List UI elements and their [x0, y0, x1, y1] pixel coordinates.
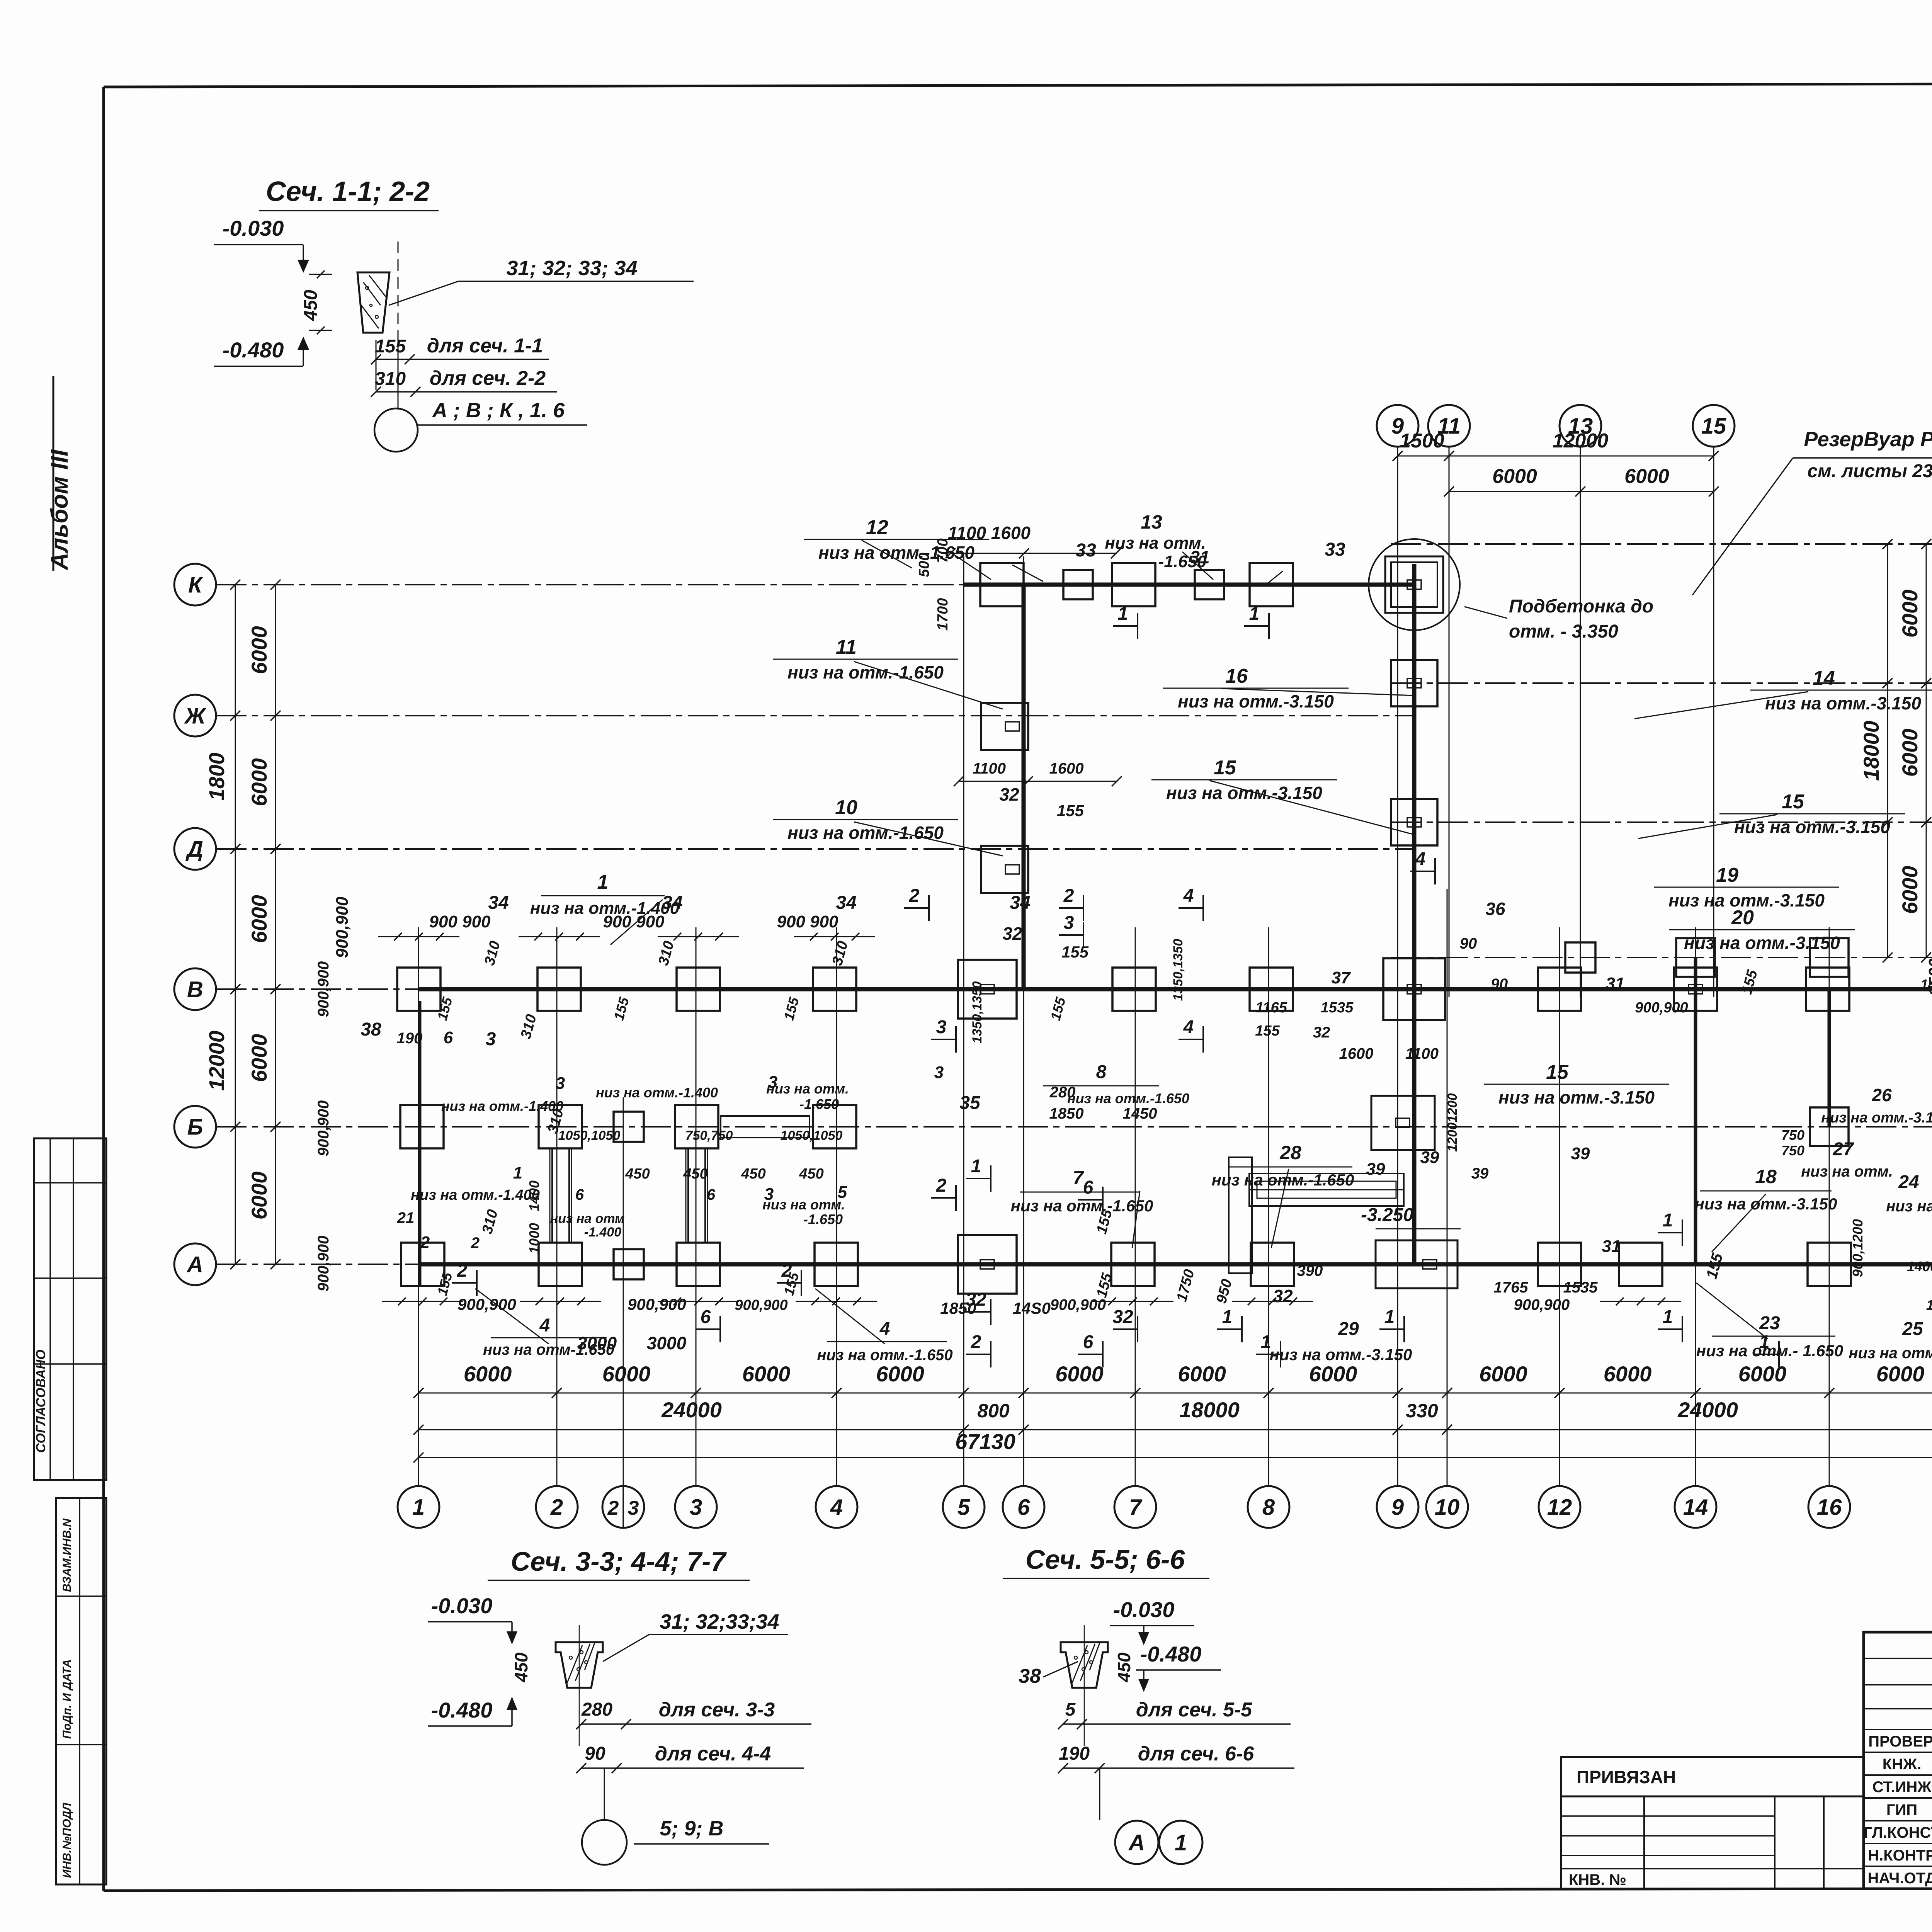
svg-text:6000: 6000: [876, 1362, 924, 1386]
svg-text:1600: 1600: [1339, 1045, 1374, 1062]
svg-text:низ на отм.-1.650: низ на отм.-1.650: [1212, 1171, 1354, 1189]
svg-text:низ на отм.: низ на отм.: [1886, 1198, 1932, 1215]
svg-text:12000: 12000: [204, 1031, 229, 1091]
svg-text:450: 450: [741, 1166, 765, 1182]
svg-text:Альбом III: Альбом III: [46, 449, 73, 571]
svg-text:низ на отм.-1.650: низ на отм.-1.650: [1067, 1090, 1189, 1106]
svg-text:450: 450: [683, 1166, 707, 1182]
svg-text:ВЗАМ.ИНВ.N: ВЗАМ.ИНВ.N: [61, 1518, 73, 1592]
svg-text:1050,1050: 1050,1050: [781, 1128, 843, 1143]
svg-text:280: 280: [581, 1699, 612, 1720]
svg-text:1535: 1535: [1321, 1000, 1354, 1016]
svg-text:6: 6: [707, 1186, 716, 1203]
svg-text:310: 310: [375, 369, 406, 389]
svg-text:низ на отм.-1.650: низ на отм.-1.650: [787, 823, 944, 843]
svg-text:16: 16: [1817, 1495, 1842, 1520]
svg-text:низ на отм: низ на отм: [550, 1211, 625, 1226]
svg-text:5: 5: [1065, 1699, 1076, 1720]
svg-text:СТ.ИНЖ: СТ.ИНЖ: [1872, 1779, 1932, 1796]
svg-text:низ на отм.-3.150: низ на отм.-3.150: [1734, 817, 1890, 837]
svg-text:155: 155: [1255, 1023, 1280, 1039]
svg-text:1: 1: [1175, 1830, 1187, 1855]
svg-text:К: К: [188, 572, 203, 597]
svg-text:ГЛ.КОНСТ: ГЛ.КОНСТ: [1864, 1824, 1932, 1841]
svg-text:3: 3: [936, 1017, 947, 1037]
svg-text:38: 38: [361, 1019, 381, 1040]
svg-text:2: 2: [550, 1495, 563, 1520]
svg-text:155: 155: [375, 336, 406, 357]
svg-text:6000: 6000: [1898, 729, 1922, 777]
svg-text:низ на отм.: низ на отм.: [762, 1197, 845, 1213]
svg-text:34: 34: [1010, 893, 1030, 913]
svg-text:для сеч. 6-6: для сеч. 6-6: [1138, 1743, 1255, 1765]
svg-text:2: 2: [607, 1497, 619, 1519]
svg-text:2: 2: [420, 1233, 430, 1252]
svg-text:3: 3: [628, 1497, 639, 1519]
svg-text:20: 20: [1731, 906, 1754, 929]
svg-text:-0.030: -0.030: [431, 1594, 493, 1618]
svg-text:ИНВ.№ПОДЛ: ИНВ.№ПОДЛ: [61, 1802, 73, 1878]
svg-text:13: 13: [1141, 511, 1162, 533]
svg-text:СОГЛАСОВАНО: СОГЛАСОВАНО: [34, 1350, 48, 1453]
svg-text:РезерВуар РЕ1: РезерВуар РЕ1: [1804, 428, 1932, 451]
svg-text:15: 15: [1782, 791, 1804, 813]
svg-text:для сеч. 4-4: для сеч. 4-4: [655, 1743, 771, 1765]
svg-text:6000: 6000: [1624, 465, 1669, 488]
svg-text:низ на отм.-1.400: низ на отм.-1.400: [411, 1187, 540, 1203]
svg-text:6000: 6000: [1055, 1362, 1104, 1386]
svg-text:1450: 1450: [1123, 1105, 1157, 1122]
svg-text:А ; В ; К , 1. 6: А ; В ; К , 1. 6: [432, 399, 565, 422]
svg-text:14S0: 14S0: [1013, 1299, 1051, 1317]
svg-text:7: 7: [1129, 1495, 1143, 1520]
svg-text:Д: Д: [185, 837, 203, 862]
svg-text:32: 32: [966, 1289, 986, 1310]
svg-text:4: 4: [879, 1319, 890, 1339]
svg-text:1765: 1765: [1494, 1279, 1529, 1296]
svg-text:4: 4: [1183, 1017, 1194, 1037]
svg-text:18000: 18000: [1859, 721, 1883, 781]
svg-text:НАЧ.ОТД: НАЧ.ОТД: [1868, 1870, 1932, 1887]
svg-text:Сеч. 3-3; 4-4; 7-7: Сеч. 3-3; 4-4; 7-7: [511, 1546, 727, 1577]
svg-text:90: 90: [1491, 976, 1508, 993]
svg-text:-1.400: -1.400: [584, 1225, 621, 1240]
svg-text:15: 15: [1546, 1061, 1569, 1083]
svg-text:Б: Б: [187, 1114, 203, 1139]
svg-text:1400: 1400: [526, 1180, 542, 1211]
svg-text:28: 28: [1279, 1142, 1301, 1163]
svg-text:2: 2: [781, 1260, 792, 1281]
svg-text:450: 450: [511, 1652, 531, 1682]
svg-text:2: 2: [471, 1235, 480, 1252]
svg-text:для сеч. 3-3: для сеч. 3-3: [659, 1699, 775, 1721]
svg-text:низ на отм.-1.650: низ на отм.-1.650: [817, 1347, 952, 1364]
svg-text:27: 27: [1832, 1139, 1854, 1160]
svg-text:31: 31: [1606, 974, 1625, 993]
svg-text:4: 4: [1415, 849, 1426, 869]
svg-text:4: 4: [830, 1495, 843, 1520]
svg-text:5; 9; В: 5; 9; В: [660, 1817, 723, 1840]
svg-text:1535: 1535: [1563, 1279, 1598, 1296]
svg-text:А: А: [1128, 1830, 1145, 1855]
svg-text:190: 190: [1059, 1743, 1090, 1764]
svg-text:низ на отм.-3.150: низ на отм.-3.150: [1178, 691, 1334, 711]
svg-text:67130: 67130: [955, 1429, 1015, 1454]
svg-text:450: 450: [625, 1166, 650, 1182]
svg-text:32: 32: [1273, 1286, 1293, 1306]
svg-text:330: 330: [1406, 1400, 1438, 1422]
svg-text:6000: 6000: [1898, 866, 1922, 914]
svg-text:34: 34: [488, 893, 509, 913]
svg-text:39: 39: [1366, 1160, 1385, 1179]
svg-text:36: 36: [1485, 899, 1505, 919]
svg-text:900,900: 900,900: [1635, 1000, 1688, 1016]
svg-text:3000: 3000: [647, 1333, 687, 1353]
svg-text:1: 1: [1118, 604, 1128, 624]
svg-text:Н.КОНТР: Н.КОНТР: [1868, 1847, 1932, 1864]
svg-text:6: 6: [701, 1307, 711, 1327]
svg-text:низ на отм-1.650: низ на отм-1.650: [483, 1341, 614, 1358]
svg-text:900,900: 900,900: [315, 1100, 332, 1156]
svg-text:низ на отм.-1.650: низ на отм.-1.650: [787, 662, 944, 682]
svg-text:900 900: 900 900: [777, 912, 838, 931]
svg-text:31; 32; 33; 34: 31; 32; 33; 34: [506, 257, 637, 280]
svg-text:24000: 24000: [661, 1398, 722, 1422]
svg-text:низ на отм.: низ на отм.: [766, 1081, 849, 1097]
svg-text:6000: 6000: [602, 1362, 651, 1386]
svg-text:КНЖ.: КНЖ.: [1883, 1756, 1922, 1773]
svg-text:Сеч. 5-5; 6-6: Сеч. 5-5; 6-6: [1026, 1544, 1185, 1575]
svg-text:А: А: [186, 1252, 203, 1277]
svg-text:5: 5: [957, 1495, 970, 1520]
svg-text:4: 4: [539, 1315, 550, 1336]
svg-text:7: 7: [1073, 1167, 1084, 1189]
svg-text:35: 35: [959, 1093, 981, 1113]
svg-text:8: 8: [1262, 1495, 1275, 1520]
svg-text:6: 6: [575, 1186, 584, 1203]
svg-text:2: 2: [936, 1175, 947, 1196]
svg-text:низ на отм.-3.150: низ на отм.-3.150: [1270, 1345, 1412, 1364]
svg-text:1: 1: [1759, 1332, 1770, 1352]
svg-text:Сеч. 1-1; 2-2: Сеч. 1-1; 2-2: [266, 176, 430, 207]
svg-text:1: 1: [513, 1163, 522, 1182]
svg-text:155: 155: [1061, 943, 1089, 961]
svg-text:1400,400: 1400,400: [1926, 1297, 1932, 1313]
svg-text:21: 21: [397, 1209, 415, 1226]
svg-text:29: 29: [1338, 1319, 1359, 1339]
svg-text:низ на отм.: низ на отм.: [1801, 1163, 1893, 1180]
svg-text:155: 155: [1057, 801, 1084, 820]
svg-text:1: 1: [1663, 1307, 1673, 1327]
svg-text:низ на отм.-3.150: низ на отм.-3.150: [1821, 1110, 1932, 1126]
svg-text:-1.650: -1.650: [803, 1211, 843, 1227]
svg-text:2: 2: [971, 1332, 981, 1352]
svg-text:6000: 6000: [1876, 1362, 1925, 1386]
svg-text:25: 25: [1902, 1319, 1923, 1339]
svg-text:низ на отм.-1.400: низ на отм.-1.400: [441, 1098, 563, 1114]
svg-text:900,900: 900,900: [457, 1295, 516, 1313]
svg-text:450: 450: [1114, 1652, 1134, 1682]
svg-text:10: 10: [835, 796, 857, 819]
svg-text:-0.480: -0.480: [431, 1698, 493, 1722]
svg-text:450: 450: [301, 290, 321, 321]
svg-text:низ на отм.-1.650: низ на отм.-1.650: [818, 543, 975, 563]
svg-text:низ на отм.-1.400: низ на отм.-1.400: [596, 1085, 718, 1100]
svg-text:2: 2: [909, 886, 920, 906]
svg-text:34: 34: [662, 893, 682, 913]
svg-text:900 900: 900 900: [603, 912, 665, 931]
svg-text:6000: 6000: [742, 1362, 791, 1386]
svg-text:8: 8: [1096, 1062, 1107, 1082]
svg-text:Ж: Ж: [184, 703, 207, 728]
svg-text:ГИП: ГИП: [1886, 1801, 1917, 1818]
svg-text:6000: 6000: [247, 626, 271, 674]
svg-text:6: 6: [1017, 1495, 1030, 1520]
svg-text:12: 12: [866, 516, 888, 539]
svg-text:1: 1: [1663, 1210, 1673, 1231]
svg-text:-3.250: -3.250: [1361, 1205, 1413, 1225]
svg-text:90: 90: [1460, 935, 1477, 952]
svg-text:-0.030: -0.030: [1113, 1597, 1175, 1622]
svg-text:3: 3: [1064, 913, 1074, 933]
svg-text:1: 1: [1222, 1307, 1233, 1327]
svg-text:900,900: 900,900: [315, 961, 332, 1017]
svg-text:39: 39: [1571, 1144, 1590, 1163]
svg-text:2: 2: [457, 1260, 468, 1281]
svg-text:24000: 24000: [1677, 1398, 1738, 1422]
svg-text:низ на отм.-3.150: низ на отм.-3.150: [1695, 1195, 1837, 1213]
svg-text:1400: 1400: [1920, 976, 1932, 992]
svg-text:38: 38: [1019, 1665, 1041, 1687]
svg-text:14: 14: [1683, 1495, 1708, 1520]
svg-text:750: 750: [1781, 1127, 1804, 1143]
svg-text:900 900: 900 900: [429, 912, 491, 931]
svg-text:1000: 1000: [526, 1223, 542, 1254]
svg-text:16: 16: [1225, 665, 1248, 687]
svg-text:190: 190: [397, 1030, 423, 1047]
svg-text:6000: 6000: [1479, 1362, 1527, 1386]
svg-text:1400,400: 1400,400: [1907, 1259, 1932, 1274]
svg-text:6000: 6000: [1309, 1362, 1357, 1386]
svg-text:низ на отм.-3.150: низ на отм.-3.150: [1765, 693, 1921, 713]
svg-text:-1.650: -1.650: [799, 1096, 839, 1112]
svg-text:6000: 6000: [1492, 465, 1537, 488]
svg-text:1165: 1165: [1255, 1000, 1287, 1016]
svg-text:6000: 6000: [247, 1034, 271, 1082]
svg-text:низ на отм.-3.150: низ на отм.-3.150: [1684, 933, 1840, 953]
svg-text:1100 1600: 1100 1600: [948, 523, 1031, 543]
svg-text:32: 32: [1002, 923, 1022, 944]
svg-text:1350,1350: 1350,1350: [970, 981, 985, 1044]
svg-text:1: 1: [971, 1156, 981, 1177]
svg-text:39: 39: [1420, 1148, 1439, 1167]
svg-text:6: 6: [1083, 1332, 1094, 1352]
svg-text:6: 6: [1083, 1177, 1094, 1198]
svg-text:3: 3: [934, 1063, 944, 1082]
svg-text:низ на отм.-3.150: низ на отм.-3.150: [1166, 783, 1322, 803]
svg-text:24: 24: [1898, 1172, 1919, 1192]
svg-text:900,1200: 900,1200: [1850, 1219, 1866, 1277]
svg-text:1600: 1600: [1049, 760, 1084, 777]
svg-text:12: 12: [1547, 1495, 1572, 1520]
svg-text:3: 3: [764, 1185, 774, 1204]
svg-text:-0.030: -0.030: [223, 216, 284, 240]
svg-text:ПРОВЕР.: ПРОВЕР.: [1868, 1733, 1932, 1750]
svg-text:33: 33: [1075, 540, 1096, 561]
svg-text:КНВ. №: КНВ. №: [1569, 1871, 1626, 1888]
svg-text:900,900: 900,900: [735, 1297, 787, 1313]
svg-text:90: 90: [585, 1743, 605, 1764]
svg-text:1850: 1850: [1049, 1105, 1084, 1122]
svg-text:ПРИВЯЗАН: ПРИВЯЗАН: [1577, 1767, 1676, 1787]
svg-text:3: 3: [556, 1074, 565, 1093]
svg-text:4: 4: [1183, 886, 1194, 906]
svg-text:Подбетонка до: Подбетонка до: [1509, 596, 1653, 617]
svg-text:6000: 6000: [464, 1362, 512, 1386]
svg-text:для сеч. 1-1: для сеч. 1-1: [427, 335, 543, 357]
svg-text:6000: 6000: [1604, 1362, 1652, 1386]
svg-text:5: 5: [838, 1183, 847, 1202]
svg-text:6: 6: [444, 1028, 453, 1047]
svg-text:1100: 1100: [973, 760, 1006, 777]
svg-text:низ на отм.-3.150: низ на отм.-3.150: [1498, 1087, 1655, 1107]
svg-text:14: 14: [1813, 667, 1835, 689]
svg-text:32: 32: [1313, 1024, 1330, 1041]
svg-text:15: 15: [1214, 757, 1236, 779]
svg-text:6000: 6000: [1178, 1362, 1226, 1386]
svg-text:3: 3: [690, 1495, 702, 1520]
svg-text:10: 10: [1435, 1495, 1460, 1520]
svg-text:39: 39: [1471, 1165, 1489, 1182]
svg-text:1: 1: [597, 871, 609, 893]
svg-text:1: 1: [1249, 604, 1260, 624]
svg-text:для сеч. 5-5: для сеч. 5-5: [1136, 1699, 1253, 1721]
svg-text:18: 18: [1755, 1166, 1777, 1187]
svg-text:32: 32: [999, 784, 1019, 804]
svg-text:37: 37: [1332, 968, 1351, 987]
svg-text:390: 390: [1297, 1262, 1323, 1279]
svg-text:6000: 6000: [247, 1172, 271, 1220]
svg-text:19: 19: [1716, 864, 1738, 886]
svg-text:ПоДп. И ДАТА: ПоДп. И ДАТА: [61, 1659, 73, 1739]
svg-text:9: 9: [1391, 1495, 1404, 1520]
svg-text:2: 2: [1063, 886, 1074, 906]
svg-text:1: 1: [412, 1495, 425, 1520]
svg-text:800: 800: [977, 1400, 1010, 1422]
svg-text:1: 1: [1261, 1332, 1271, 1352]
svg-text:см. листы 23..33: см. листы 23..33: [1807, 461, 1932, 481]
svg-text:33: 33: [1325, 539, 1345, 560]
svg-text:34: 34: [836, 893, 856, 913]
svg-text:450: 450: [799, 1166, 823, 1182]
svg-text:31; 32;33;34: 31; 32;33;34: [660, 1610, 779, 1633]
svg-text:15: 15: [1701, 413, 1726, 439]
svg-text:для сеч. 2-2: для сеч. 2-2: [430, 367, 546, 389]
svg-text:750,750: 750,750: [685, 1128, 733, 1143]
svg-text:900,900: 900,900: [333, 896, 352, 958]
svg-text:750: 750: [1781, 1143, 1804, 1158]
svg-text:6000: 6000: [1898, 590, 1922, 638]
svg-text:23: 23: [1759, 1313, 1780, 1333]
svg-text:32: 32: [1112, 1307, 1133, 1327]
svg-text:1500: 1500: [1400, 430, 1444, 452]
svg-text:12000: 12000: [1553, 430, 1609, 452]
svg-text:31: 31: [1190, 547, 1209, 567]
svg-text:В: В: [187, 977, 203, 1002]
svg-text:-0.480: -0.480: [223, 338, 284, 362]
svg-text:900,900: 900,900: [315, 1236, 332, 1292]
svg-text:900,900: 900,900: [628, 1295, 686, 1313]
svg-text:низ на отм.-3.150: низ на отм.-3.150: [1849, 1345, 1932, 1362]
svg-text:900,900: 900,900: [1514, 1296, 1570, 1313]
svg-text:3: 3: [768, 1073, 777, 1092]
svg-text:1100: 1100: [1405, 1045, 1439, 1062]
svg-text:1800: 1800: [204, 753, 229, 801]
svg-text:3: 3: [486, 1029, 496, 1049]
svg-text:-0.480: -0.480: [1140, 1642, 1202, 1666]
svg-text:низ на отм.- 1.650: низ на отм.- 1.650: [1696, 1342, 1843, 1360]
svg-text:6000: 6000: [247, 895, 271, 943]
svg-text:11: 11: [836, 636, 857, 658]
svg-text:31: 31: [1602, 1237, 1621, 1256]
svg-text:26: 26: [1871, 1085, 1892, 1105]
svg-text:1700: 1700: [935, 598, 951, 631]
svg-text:18000: 18000: [1179, 1398, 1240, 1422]
svg-text:12001200: 12001200: [1445, 1093, 1460, 1151]
svg-text:900,900: 900,900: [1050, 1296, 1106, 1313]
svg-text:1050,1050: 1050,1050: [558, 1128, 621, 1143]
svg-text:1350,1350: 1350,1350: [1171, 939, 1185, 1001]
svg-text:6000: 6000: [247, 758, 271, 806]
svg-text:отм. - 3.350: отм. - 3.350: [1509, 621, 1618, 642]
svg-text:1: 1: [1384, 1307, 1395, 1327]
